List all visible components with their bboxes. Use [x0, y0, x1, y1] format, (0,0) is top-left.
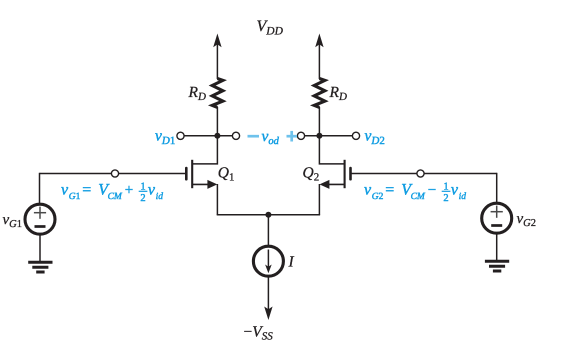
terminal vod minus side: [232, 132, 239, 139]
svg-text:G2: G2: [372, 192, 384, 202]
wire common source rail: [217, 214, 320, 216]
terminal vD1: [177, 132, 184, 139]
svg-text:Q1: Q1: [218, 165, 235, 184]
wire VDD right shaft: [318, 40, 320, 79]
wire left resistor to drain node: [216, 107, 218, 137]
ground left: [28, 262, 52, 272]
wire Q1 source down: [216, 184, 218, 215]
svg-text:2: 2: [443, 193, 448, 204]
svg-text:id: id: [459, 192, 467, 202]
svg-text:G1: G1: [69, 192, 81, 202]
terminal vod plus side: [297, 132, 304, 139]
wire right corner down: [496, 173, 498, 204]
wire vG2 to ground: [496, 233, 498, 261]
power VDD arrowhead left: [213, 34, 221, 48]
svg-text:+: +: [125, 183, 133, 199]
voltage source vG1: [25, 204, 55, 234]
wire current source to VSS: [267, 276, 269, 310]
junction dot right drain node: [316, 133, 322, 139]
node label vod: [248, 128, 298, 147]
wire left corner down: [39, 173, 41, 205]
resistor RD right: [314, 79, 325, 108]
svg-text:=: =: [385, 182, 394, 199]
junction dot left drain node: [214, 133, 220, 139]
svg-text:CM: CM: [411, 192, 426, 202]
svg-text:−: −: [428, 183, 436, 199]
junction dot common source node: [265, 212, 271, 218]
wire VDD left shaft: [216, 40, 218, 79]
svg-text:Q2: Q2: [303, 165, 320, 184]
wire tail to current source: [267, 215, 269, 247]
svg-text:vD1: vD1: [155, 128, 175, 147]
terminal vD2: [352, 132, 359, 139]
svg-text:vG1: vG1: [3, 212, 23, 230]
svg-text:I: I: [288, 254, 295, 271]
equation vG2 = VCM - 1/2 vid: [364, 181, 466, 204]
terminal left gate: [111, 170, 118, 177]
ground right: [485, 261, 509, 271]
svg-text:RD: RD: [188, 84, 206, 103]
wire drain rail left: [181, 135, 237, 137]
voltage source vG2: [482, 203, 512, 233]
transistor Q1: [186, 160, 217, 189]
wire right resistor to drain node: [318, 107, 320, 137]
svg-text:VDD: VDD: [257, 18, 284, 38]
power VDD arrowhead right: [315, 34, 323, 48]
svg-text:CM: CM: [108, 192, 123, 202]
resistor RD left: [212, 79, 223, 108]
wire gate left: [40, 173, 187, 175]
svg-text:vod: vod: [262, 128, 280, 147]
svg-text:2: 2: [140, 193, 145, 204]
wire vG1 to ground: [39, 234, 41, 262]
transistor Q2: [320, 160, 351, 189]
wire Q2 drain connection: [319, 136, 344, 164]
svg-text:v: v: [364, 182, 372, 199]
equation vG1 = VCM + 1/2 vid: [61, 181, 163, 204]
wire gate right: [351, 173, 497, 175]
svg-text:RD: RD: [329, 84, 347, 103]
wire drain rail right: [301, 135, 356, 137]
svg-text:id: id: [156, 192, 164, 202]
current source I: [253, 246, 283, 276]
terminal right gate: [417, 170, 424, 177]
svg-text:=: =: [82, 182, 91, 199]
svg-text:vG2: vG2: [517, 211, 537, 229]
svg-text:vD2: vD2: [365, 128, 385, 147]
wire Q2 source down: [318, 184, 320, 215]
wire Q1 drain connection: [192, 136, 217, 164]
svg-text:−VSS: −VSS: [244, 324, 274, 342]
power VSS arrowhead: [264, 307, 272, 321]
svg-text:v: v: [61, 182, 69, 199]
